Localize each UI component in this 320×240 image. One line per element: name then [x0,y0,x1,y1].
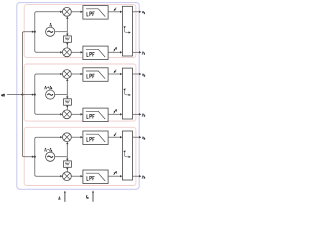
branch 1 split junction dot [34,31,36,33]
LO1 wire down to 90 deg shifter [66,32,68,36]
local oscillator LO2 [46,90,55,99]
mixing clock input arrow f_m [92,190,94,201]
mixer M1b [63,48,72,57]
wire LPF2a to sampler block [108,73,122,75]
I-branch signal label x^I [113,70,116,74]
output wire Q branch 3 [133,175,142,177]
wire mixer M3a to LPF3a [71,136,83,138]
output label x2 [141,72,146,77]
LO2 wire down to 90 deg shifter [66,95,68,99]
I-branch signal label x^I [113,133,116,137]
LO1 output wire [55,31,68,33]
output label y2 [141,113,146,118]
sampler ADC block 3 [122,131,132,180]
mixer M2b [63,110,72,119]
low-pass filter LPF1b [83,46,108,60]
branch 3 enclosure box [24,127,136,185]
output label x3 [141,136,146,141]
sampling switch icon 2 [123,89,131,97]
wire 90 deg shifter to mixer 1b [66,42,68,48]
Q-branch signal label y^Q [113,109,117,113]
output wire Q branch 1 [133,51,142,53]
low-pass filter LPF3a [83,131,108,145]
branch 2 split junction dot [34,94,36,96]
wire LPF3b to sampler block [108,175,122,177]
wire mixer M1a to LPF1a [71,11,83,13]
LO3 wire down to 90 deg shifter [66,157,68,161]
mixer M3a [63,133,72,142]
local oscillator LO1 [46,27,55,36]
output wire Q branch 2 [133,113,142,115]
input signal label s(t) [1,93,5,97]
output wire I branch 1 [133,11,142,13]
I-branch signal label x^I [113,7,116,11]
distribution bus wire down to branch 3 [22,95,34,158]
local oscillator LO3 [46,152,55,161]
branch 2 signal split wire to mixers [35,73,63,116]
branch 2 enclosure box [24,64,136,121]
input wire [7,93,34,95]
svg-text:s(t): s(t) [1,93,5,97]
sampling switch icon 1 [123,26,131,33]
wire mixer M2b to LPF2b [71,113,83,115]
wire 90 deg shifter to mixer 2b [66,105,68,110]
wire LPF2b to sampler block [108,113,122,115]
low-pass filter LPF1a [83,6,108,20]
mixer M2a [63,70,72,79]
sampling clock label f_s [59,196,61,201]
output label y1 [141,51,146,56]
branch 3 signal split wire to mixers [35,136,63,177]
wire LPF3a to sampler block [108,136,122,138]
input junction dot [21,94,23,96]
LO2 output wire [55,94,68,96]
output wire I branch 3 [133,136,142,138]
wire mixer M1b to LPF1b [71,51,83,53]
90 degree phase shifter branch 3 [64,161,72,167]
90 degree phase shifter branch 1 [64,36,72,42]
mixing clock label f_m [86,195,89,200]
90 degree phase shifter branch 2 [64,99,72,105]
LO3 wire up to mixer 3a [66,142,68,157]
LO2 wire up to mixer 2a [66,79,68,95]
output wire I branch 2 [133,73,142,75]
LO1 frequency label [50,23,53,28]
output label y3 [141,175,146,180]
wire mixer M2a to LPF2a [71,73,83,75]
low-pass filter LPF2a [83,68,108,82]
outer system boundary box [17,3,139,190]
sampler ADC block 2 [122,68,132,119]
LO1 wire up to mixer 1a [66,16,68,31]
sampling switch icon 3 [123,151,131,159]
branch 3 split junction dot [34,156,36,158]
output label x1 [141,10,146,15]
wire LPF1b to sampler block [108,51,122,53]
Q-branch signal label y^Q [113,171,117,175]
LO2 frequency label [45,85,53,90]
mixer M1a [63,7,72,16]
wire mixer M3b to LPF3b [71,175,83,177]
sampler ADC block 1 [122,6,132,56]
LO3 output wire [55,156,68,158]
mixer M3b [63,172,72,181]
wire 90 deg shifter to mixer 3b [66,167,68,171]
LO3 frequency label [45,148,53,153]
sampling clock input arrow f_s [64,191,66,202]
branch 1 enclosure box [24,5,136,58]
low-pass filter LPF2b [83,108,108,122]
wire LPF1a to sampler block [108,11,122,13]
branch 1 signal split wire to mixers [35,11,63,54]
distribution bus wire up to branch 1 [22,31,34,95]
Q-branch signal label y^Q [113,47,117,51]
low-pass filter LPF3b [83,170,108,184]
